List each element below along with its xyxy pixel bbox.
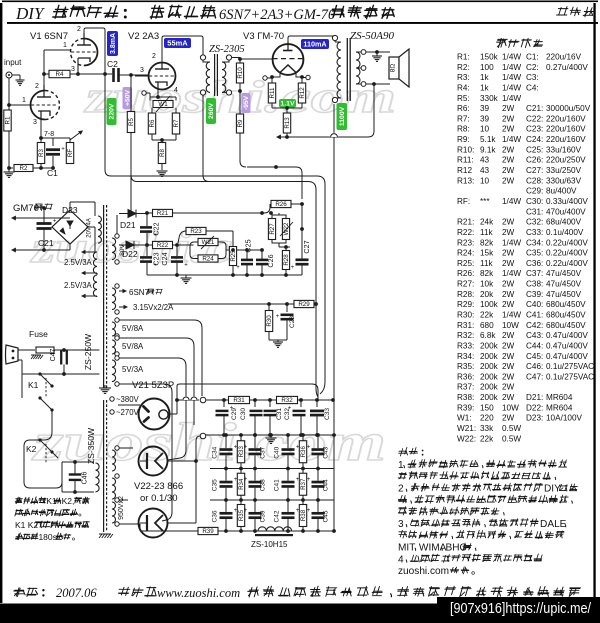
wire k loop: [22, 374, 40, 398]
title underline: [7, 22, 598, 24]
svg-text:ZS-10H15: ZS-10H15: [251, 540, 288, 549]
node row: [224, 467, 228, 471]
wire plate: [288, 36, 333, 42]
svg-text:+: +: [288, 406, 292, 412]
svg-text:Fuse: Fuse: [29, 329, 48, 339]
svg-text:2: 2: [77, 26, 81, 33]
svg-text:6SN7+2A3+GM-70: 6SN7+2A3+GM-70: [219, 7, 336, 23]
svg-text:R10: R10: [237, 67, 244, 79]
node row: [224, 433, 228, 437]
svg-text:7-8: 7-8: [44, 131, 54, 138]
wire bridge top: [69, 202, 71, 210]
svg-text:R7: R7: [173, 119, 180, 127]
svg-text:R23: R23: [190, 228, 202, 235]
svg-text:C44: C44: [323, 479, 330, 491]
wire secondary down: [373, 84, 375, 131]
wire bus A y167: [247, 166, 296, 168]
wire bus: [224, 399, 228, 401]
choke ZS-10H15: [258, 527, 292, 531]
caution text: [15, 497, 23, 503]
wire secondary top to R10: [232, 57, 241, 59]
label 1.1V: [279, 99, 296, 108]
node: [104, 175, 106, 177]
winding 5V/8A b: [112, 340, 116, 354]
svg-text:DALE: DALE: [540, 519, 567, 530]
label 3.8mA: [107, 31, 118, 56]
svg-text:C2: C2: [107, 59, 118, 69]
svg-text:-95V: -95V: [243, 95, 250, 110]
wire R9 to bus A: [240, 133, 246, 167]
node: [331, 398, 335, 402]
svg-text:C37: C37: [260, 446, 267, 458]
svg-text:3.8mA: 3.8mA: [110, 33, 117, 54]
svg-text:4: 4: [174, 87, 178, 94]
capacitor C31: [269, 400, 271, 407]
svg-text:+: +: [236, 265, 240, 271]
svg-text:3: 3: [33, 119, 37, 126]
svg-text:ZS-350W: ZS-350W: [86, 427, 96, 464]
wire: [269, 339, 287, 341]
wire V1a plate to B+: [84, 28, 105, 74]
diode D21: [119, 213, 147, 215]
wire speaker top: [366, 51, 390, 53]
svg-text:1: 1: [63, 42, 67, 49]
svg-text:V1 6SN7: V1 6SN7: [30, 31, 68, 42]
wire: [368, 85, 374, 137]
resistor R27: [268, 219, 276, 240]
svg-text:1100V: 1100V: [339, 106, 346, 126]
wire: [43, 50, 45, 74]
ground: [270, 435, 272, 438]
capacitor C46: [69, 475, 82, 480]
node: [267, 302, 271, 306]
svg-text:2.5V/3A: 2.5V/3A: [64, 281, 93, 290]
svg-text:220V: 220V: [109, 103, 116, 119]
resistor R8: [158, 143, 166, 164]
svg-text:K2: K2: [26, 444, 37, 454]
wire: [271, 103, 273, 108]
svg-text:DIY: DIY: [15, 4, 45, 23]
resistor R35: [240, 500, 242, 531]
svg-text:2.5V/3A: 2.5V/3A: [64, 258, 93, 267]
capacitor C37: [254, 435, 256, 448]
wire: [301, 204, 303, 229]
wire heater line: [168, 303, 294, 305]
svg-text:R28: R28: [283, 254, 290, 266]
winding 5V/3A: [112, 360, 116, 382]
node row: [224, 498, 228, 502]
ZS-350W primary: [96, 463, 100, 492]
wire bus C y181.5: [131, 132, 308, 182]
resistor R38: [302, 500, 304, 531]
svg-text:8Ω: 8Ω: [390, 64, 397, 73]
svg-text:R27: R27: [269, 223, 276, 235]
capacitor C42: [287, 500, 289, 512]
svg-text:DIY: DIY: [544, 484, 561, 495]
svg-text:C41: C41: [274, 479, 281, 491]
svg-text:R24: R24: [202, 256, 214, 263]
wire v22 plate: [168, 460, 197, 462]
svg-text:V2 2A3: V2 2A3: [128, 31, 159, 42]
node: [222, 433, 226, 437]
wire bottom return: [119, 523, 140, 525]
svg-text:+: +: [276, 314, 280, 320]
svg-text:4: 4: [398, 554, 404, 565]
svg-text:~380V: ~380V: [116, 395, 140, 404]
triode V2 2A3: [149, 63, 176, 90]
wire: [152, 139, 176, 141]
svg-text:2: 2: [152, 53, 156, 60]
terminal V3: [263, 76, 267, 80]
wire: [119, 74, 149, 76]
resistor R7: [172, 113, 180, 134]
main transformer core ZS-250W: [103, 205, 105, 388]
resistor R39: [198, 527, 218, 535]
transformer T3 GM70 filament winding 2.5V/3A a: [93, 252, 97, 274]
svg-text:R12: R12: [299, 87, 306, 99]
resistor R5 grid: [127, 112, 135, 133]
svg-text:or 0.1/30: or 0.1/30: [140, 493, 178, 504]
wire: [8, 78, 10, 105]
svg-text:R5:330k1/4W: R5:330k1/4W: [457, 94, 521, 103]
svg-text:3: 3: [140, 67, 144, 74]
wire HV feed x334: [333, 104, 335, 433]
svg-text:W21: W21: [202, 239, 215, 246]
svg-text:R8: R8: [159, 148, 166, 156]
wire bank bus 3: [210, 499, 334, 501]
wire corner B: [317, 176, 325, 394]
resistor R2: [9, 167, 13, 169]
ground: [376, 52, 378, 56]
wire: [140, 522, 147, 524]
hop: [331, 134, 338, 137]
wire V1a cathode: [77, 66, 79, 74]
capacitor C22: [146, 213, 148, 226]
wire: [226, 249, 247, 251]
terminal ~270V: [110, 410, 114, 414]
svg-text:R1: R1: [5, 116, 12, 124]
heater routing wires nested: [119, 320, 202, 396]
wire: [41, 137, 70, 139]
label 260V: [206, 98, 216, 124]
node: [42, 72, 46, 76]
resistor R24: [198, 255, 218, 263]
node: [245, 248, 249, 252]
svg-text:2: 2: [35, 83, 39, 90]
svg-text:R21: R21: [157, 210, 169, 217]
svg-text:R26: R26: [275, 201, 287, 208]
wire loop left: [190, 242, 198, 259]
svg-text:C31:470u/400V: C31:470u/400V: [526, 207, 586, 216]
svg-text:+: +: [291, 265, 295, 271]
bottom date line: [13, 588, 26, 597]
svg-text:R30: R30: [266, 315, 273, 327]
svg-text:R29: R29: [298, 301, 310, 308]
label 6SN7 heater: [119, 290, 126, 292]
potentiometer W21: [198, 238, 218, 246]
resistor R28: [282, 251, 290, 270]
svg-text:R13: R13: [284, 117, 291, 129]
svg-text:ZS-2305: ZS-2305: [209, 44, 245, 55]
svg-text:+: +: [244, 444, 248, 450]
svg-text:~270V: ~270V: [116, 408, 140, 417]
svg-text:3: 3: [398, 519, 404, 530]
svg-text:55mA: 55mA: [167, 38, 188, 47]
svg-text:260V: 260V: [208, 103, 215, 119]
arrow feedback: [70, 131, 82, 140]
resistor R10: [236, 63, 244, 83]
svg-text:R31: R31: [233, 397, 245, 404]
label 55mA: [164, 38, 191, 48]
wire: [18, 359, 22, 361]
capacitor C45: [317, 500, 319, 512]
svg-text:+50V: +50V: [124, 90, 131, 107]
wire: [43, 74, 45, 97]
upic watermark bar: [437, 597, 600, 623]
wire: [73, 460, 77, 464]
label 3.15Vx2/2A: [119, 306, 127, 308]
svg-text:C22: C22: [152, 222, 161, 235]
wire bus return y435: [206, 434, 334, 436]
wire corner C: [308, 182, 318, 398]
svg-text:[907x916]https://upic.me/: [907x916]https://upic.me/: [450, 601, 592, 617]
wire pair bottom: [272, 240, 286, 244]
wire: [140, 460, 147, 462]
svg-text:+: +: [244, 508, 248, 514]
svg-text:5V/8A: 5V/8A: [122, 324, 144, 333]
capacitor C23: [146, 245, 148, 256]
wire k2 path: [24, 440, 62, 488]
wire bank bus 2: [210, 468, 334, 470]
resistor R21: [147, 212, 153, 214]
capacitor C21: [37, 218, 57, 228]
winding 20V/4A: [98, 216, 101, 243]
label -95V: [242, 93, 251, 113]
resistor R25: [229, 247, 237, 266]
arrow left: [276, 135, 281, 140]
terminal: [306, 75, 310, 79]
ground: [185, 275, 187, 278]
resistor R22: [147, 244, 153, 246]
wire bus B y176: [105, 74, 317, 176]
svg-text:D22: D22: [122, 249, 138, 259]
transformer T2 secondary: [356, 51, 362, 53]
bottom black strip: [0, 604, 600, 623]
resistor RF feedback: [69, 138, 71, 143]
svg-text:180s: 180s: [38, 532, 56, 542]
ZS-350W secondary 950Vx2: [112, 450, 116, 471]
svg-text:MIT: MIT: [398, 543, 415, 554]
svg-text:5V/8A: 5V/8A: [122, 342, 144, 351]
resistor R31: [229, 396, 250, 404]
ground: [99, 388, 111, 393]
svg-text:C39: C39: [260, 510, 267, 522]
svg-text:ZS-250W: ZS-250W: [83, 333, 93, 370]
svg-text:C42: C42: [274, 510, 281, 522]
terminal ~380V: [110, 397, 114, 401]
node: [231, 248, 235, 252]
resistor R23: [178, 231, 186, 243]
node: [145, 211, 149, 215]
svg-text:2: 2: [398, 484, 404, 495]
resistor R13: [286, 108, 288, 113]
node: [175, 243, 179, 247]
wire v23 plate: [168, 522, 197, 524]
wire: [52, 452, 58, 458]
svg-text:1: 1: [22, 97, 26, 104]
potentiometer W1: [153, 101, 173, 109]
wire: [286, 246, 290, 248]
wire v21 out: [170, 413, 177, 415]
label 220V: [107, 98, 117, 125]
svg-text:3: 3: [71, 66, 75, 73]
svg-text:C30: C30: [240, 408, 247, 420]
svg-text:C29:8u/400V: C29:8u/400V: [526, 187, 577, 196]
svg-text:C38: C38: [260, 479, 267, 491]
main transformer core ZS-350W: [103, 400, 105, 532]
terminal B+: [200, 397, 206, 403]
cathode circuit V2: [157, 89, 159, 97]
wire bus to terminal: [177, 399, 199, 401]
wire collect: [195, 441, 197, 523]
svg-text:K2,: K2,: [62, 496, 75, 506]
node: [274, 165, 278, 169]
transformer T2 primary: [332, 35, 337, 40]
resistor R6: [148, 113, 156, 134]
capacitor C33: [316, 400, 318, 407]
capacitor C30: [254, 400, 256, 407]
svg-text:K1 K2: K1 K2: [15, 520, 38, 530]
svg-text:1: 1: [398, 460, 404, 471]
wire grid V3: [240, 58, 273, 60]
resistor R32: [277, 396, 298, 404]
transformer T1 ZS-2305 primary: [200, 55, 205, 60]
resistor R9: [236, 114, 244, 133]
wire grid: [135, 75, 149, 77]
svg-text:+: +: [244, 477, 248, 483]
wire: [12, 249, 52, 251]
wire plate to transformer: [162, 36, 203, 63]
label 110mA: [301, 39, 329, 49]
svg-text:C31: C31: [276, 408, 283, 420]
svg-text:20V/4A: 20V/4A: [87, 218, 93, 238]
svg-text:+: +: [307, 477, 311, 483]
rectifier V22 866: [139, 447, 168, 476]
svg-text:2007.06: 2007.06: [56, 586, 97, 600]
wire corner: [296, 167, 302, 199]
svg-text:WIMA: WIMA: [419, 543, 447, 554]
wire to cap bank top: [196, 436, 200, 441]
svg-text:R9: R9: [237, 119, 244, 127]
node: [145, 243, 149, 247]
wire: [118, 404, 140, 406]
winding 5V/8A a: [112, 322, 116, 336]
wire primary bottom down: [334, 103, 335, 105]
resistor R29: [294, 300, 314, 308]
wire ground return: [277, 136, 368, 138]
capacitor C44: [317, 469, 319, 481]
svg-text:R4: R4: [56, 71, 64, 78]
svg-text:V22-23 866: V22-23 866: [134, 481, 183, 492]
border frame: [0, 3, 2, 603]
svg-text:C28: C28: [289, 316, 296, 328]
capacitor C40: [287, 435, 289, 448]
capacitor C34: [225, 435, 227, 448]
svg-text:R39: R39: [202, 528, 214, 535]
parts list header: [496, 38, 508, 47]
svg-text:R3: R3: [38, 148, 45, 156]
svg-text:input: input: [4, 58, 22, 67]
arrow left filament +: [12, 217, 70, 219]
rectifier V21 5Z3P: [139, 399, 170, 430]
svg-text:D21: D21: [120, 220, 136, 230]
wire loop right: [218, 242, 226, 259]
capacitor C35: [225, 469, 227, 481]
wire: [9, 104, 31, 106]
resistor R26: [271, 200, 291, 208]
capacitor C24: [176, 245, 178, 256]
svg-text:R6: R6: [149, 119, 156, 127]
capacitor C43: [317, 435, 319, 448]
capacitor C32: [300, 400, 302, 407]
potentiometer W22: [282, 219, 290, 240]
svg-text:C27: C27: [302, 240, 311, 253]
transformer T1 ZS-2305 secondary: [226, 55, 231, 60]
wire: [40, 119, 42, 138]
svg-text:6SN7: 6SN7: [129, 288, 150, 297]
transformer T3 winding 2.5V/3A b: [93, 275, 97, 297]
svg-text:+: +: [184, 262, 188, 268]
svg-text:C40: C40: [274, 446, 281, 458]
svg-text:C43: C43: [323, 446, 330, 458]
svg-text:R2: R2: [20, 165, 28, 172]
wire speaker bottom: [366, 83, 390, 85]
svg-text:C24: C24: [160, 252, 169, 265]
wire: [139, 524, 141, 531]
triode V3 GM-70: [273, 44, 304, 75]
svg-text:C47: C47: [50, 348, 57, 361]
resistor R3: [40, 138, 42, 143]
wire: [62, 348, 66, 352]
terminal HV: [200, 433, 206, 439]
wire into filter: [118, 213, 120, 215]
plug P1: [6, 345, 19, 364]
svg-text:+: +: [307, 444, 311, 450]
svg-text:C34: C34: [212, 446, 219, 458]
resistor R12: [298, 83, 306, 103]
resistor R33: [240, 435, 242, 469]
capacitor C41: [287, 469, 289, 481]
resistor R30: [268, 304, 270, 311]
capacitor C1: [52, 138, 54, 146]
capacitor C28: [286, 304, 288, 312]
ground bus: [147, 274, 302, 276]
capacitor C29: [223, 400, 225, 407]
resistor R1: [4, 110, 12, 131]
resistor R4: [44, 73, 49, 75]
fuse F1: [36, 347, 54, 353]
svg-text:5V/3A: 5V/3A: [122, 365, 144, 374]
svg-text:www.zuoshi.com: www.zuoshi.com: [157, 586, 240, 600]
svg-text:C45: C45: [323, 510, 330, 522]
svg-text:+: +: [307, 508, 311, 514]
transformer core: [346, 38, 348, 101]
svg-text:V21 5Z3P: V21 5Z3P: [132, 380, 174, 391]
wire hop: [183, 397, 189, 400]
svg-text:zuoshi.com: zuoshi.com: [31, 412, 386, 472]
transformer core: [214, 54, 216, 96]
ground: [8, 168, 10, 172]
